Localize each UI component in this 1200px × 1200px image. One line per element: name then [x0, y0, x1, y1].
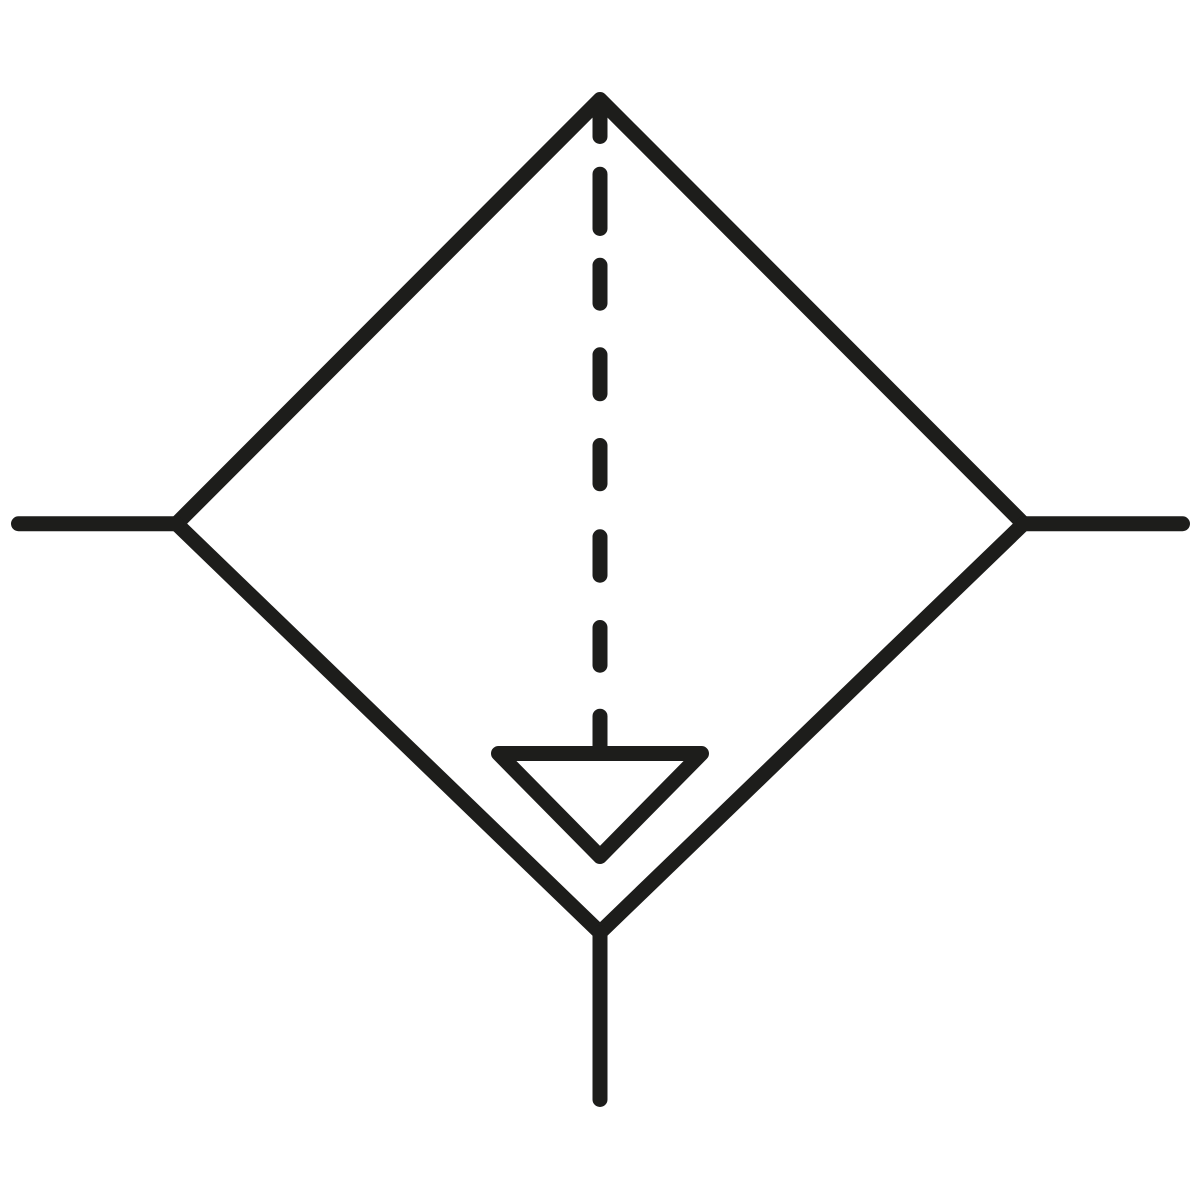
dash 8 [593, 716, 608, 749]
dash 7 [593, 628, 608, 666]
dash 5 [593, 446, 608, 484]
dash 3 [593, 265, 608, 303]
wire (right outlet port lead) [1024, 516, 1183, 531]
wire (bottom drain lead) [593, 933, 608, 1100]
wire (left inlet port lead) [19, 516, 177, 531]
drain / water separator triangle [499, 754, 702, 857]
filter body F1 (diamond outline) [177, 100, 1024, 933]
dash 4 [593, 355, 608, 394]
filter element (dashed vertical centerline), dash 1 [593, 100, 608, 137]
dash 2 [593, 174, 608, 228]
dash 6 [593, 537, 608, 575]
